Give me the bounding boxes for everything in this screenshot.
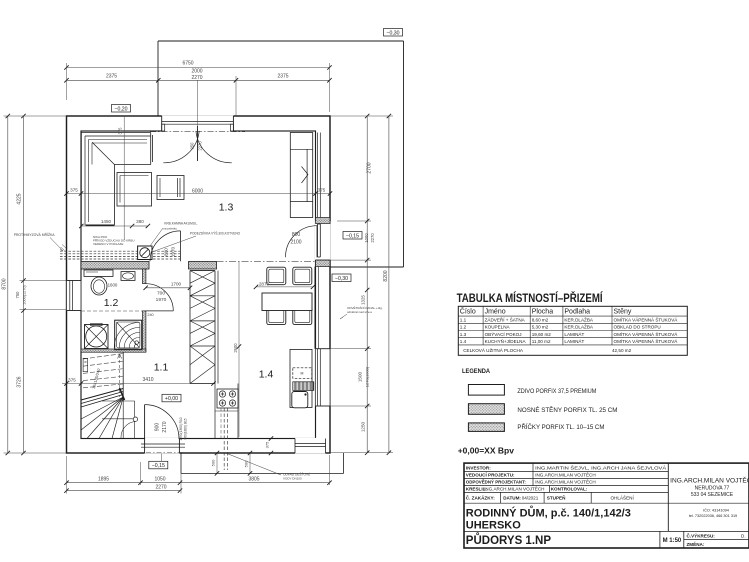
stairs winder [81,353,138,439]
tall cabinet column between hall and kitchen [190,271,238,439]
svg-text:1970: 1970 [156,297,167,303]
svg-text:M: M [301,372,304,376]
dim 380 gap [132,219,150,228]
svg-text:11,00 m2: 11,00 m2 [532,339,551,344]
svg-text:1270(1000): 1270(1000) [365,366,370,387]
svg-text:1700: 1700 [171,282,182,287]
svg-text:VEDENO V PODLAZE: VEDENO V PODLAZE [93,242,123,246]
svg-text:6750: 6750 [182,61,193,67]
svg-text:LAMINÁT: LAMINÁT [564,338,584,344]
open-plan ceiling dash-dot line to kitchen [217,260,316,262]
exterior wall inner outline [81,131,316,439]
armchair B / coffee table [157,176,184,200]
svg-text:UHERSKO: UHERSKO [466,520,521,532]
leader note bottom-left of living [93,235,135,246]
svg-text:380: 380 [136,219,144,224]
wc niche small rect near stairs top [83,358,88,371]
svg-text:375: 375 [318,188,326,193]
svg-text:D.: D. [741,534,746,539]
fireplace stove [138,246,152,260]
leader: protihmyzova mrizka [14,232,66,251]
bottom extension lines [67,454,330,494]
svg-text:2170: 2170 [162,421,168,432]
top dim line 6750 [64,61,331,70]
svg-text:1450: 1450 [101,219,112,224]
title block left texts [466,464,746,547]
svg-text:PŮDORYS 1.NP: PŮDORYS 1.NP [466,533,552,547]
svg-text:−0,20: −0,20 [114,106,127,112]
svg-text:Jméno: Jméno [485,309,506,316]
svg-text:1.1: 1.1 [460,317,467,322]
svg-text:1970: 1970 [171,246,176,257]
svg-text:860(1800) B15: 860(1800) B15 [184,418,188,439]
svg-text:STUPEŇ: STUPEŇ [547,494,566,501]
svg-text:3805: 3805 [248,477,259,483]
svg-text:2700: 2700 [367,162,373,173]
svg-text:240: 240 [147,313,153,317]
dim 2870 dining [254,281,315,289]
kitchen sink [292,392,308,408]
room table header [460,307,632,316]
svg-text:2870: 2870 [259,281,270,286]
level box -0,15 terrace door [343,232,362,240]
svg-text:ZDIVO PORFIX 37,5 PREMIUM: ZDIVO PORFIX 37,5 PREMIUM [517,388,596,395]
right extension lines [330,116,393,453]
load-bearing interior wall right segment / pier (hatched) [189,262,217,270]
shower [114,320,142,350]
svg-text:Č.VÝKRESU:: Č.VÝKRESU: [687,533,716,539]
svg-text:950: 950 [190,142,195,150]
svg-text:LEGENDA: LEGENDA [462,368,490,375]
svg-text:VEDOUCÍ PROJEKTU:: VEDOUCÍ PROJEKTU: [466,470,515,477]
svg-text:750: 750 [15,291,20,299]
svg-text:ING.ARCH.MILAN VOJTĚCH: ING.ARCH.MILAN VOJTĚCH [484,484,545,491]
svg-text:700: 700 [157,291,165,297]
corner sofa living room [81,133,152,226]
svg-text:1.4: 1.4 [259,369,274,381]
svg-text:1290(1360) R10: 1290(1360) R10 [179,417,183,440]
svg-text:1895: 1895 [98,477,109,483]
svg-text:1600: 1600 [108,283,118,288]
svg-text:na peletky: na peletky [163,227,177,231]
svg-text:1.2: 1.2 [104,297,119,309]
svg-text:tel. 732022036, 466 301 319: tel. 732022036, 466 301 319 [689,514,737,518]
svg-text:2375: 2375 [106,74,117,80]
svg-text:DATUM:: DATUM: [503,496,521,501]
svg-text:2270: 2270 [198,141,203,151]
small dims 500 to terrace [211,451,253,476]
opening: kitchen window right wall [315,349,331,406]
svg-text:ING.ARCH.MILAN VOJTĚCH: ING.ARCH.MILAN VOJTĚCH [535,477,596,484]
dish drainer hatched [293,382,314,391]
svg-text:1.4: 1.4 [460,339,467,344]
svg-text:3410: 3410 [142,377,153,383]
svg-text:+0,00=XX Bpv: +0,00=XX Bpv [458,446,515,456]
svg-text:1325: 1325 [361,295,366,305]
svg-text:−0,30: −0,30 [386,30,399,36]
right wall liner lines dining stretch [315,267,319,349]
level box -0,30 top right [384,29,403,37]
svg-text:IČO: 43141094: IČO: 43141094 [703,507,729,512]
svg-text:KER.DLAŽBA: KER.DLAŽBA [564,315,594,322]
svg-text:375: 375 [70,188,78,193]
terrace outline bottom [181,453,344,473]
leader note: krbova kamna [150,222,241,253]
room table rows [460,315,678,344]
leader: odpad destove vody [227,454,310,481]
extension line through sofa [123,116,125,240]
svg-text:Podlaha: Podlaha [564,309,590,316]
svg-text:3726: 3726 [17,376,23,387]
svg-text:ING.MARTIN ŠEJVL, ING.ARCH JAN: ING.MARTIN ŠEJVL, ING.ARCH JANA ŠEJVLOVÁ [535,464,667,470]
left extension lines [4,116,67,453]
svg-text:8700: 8700 [2,278,8,289]
legend swatch 1: zdivo porfix [468,385,596,396]
washbasin [121,272,135,281]
extension line entry axis [161,454,163,462]
svg-text:KONTROLOVAL:: KONTROLOVAL: [551,486,588,491]
dining chairs [267,267,312,324]
wall axis dash-dot through french door [150,131,245,133]
svg-text:Č. ZAKÁZKY:: Č. ZAKÁZKY: [466,495,495,501]
hatched pier above terrace door [316,218,331,224]
svg-text:Číslo: Číslo [460,307,476,316]
svg-text:5,30 m2: 5,30 m2 [532,325,549,330]
svg-text:533 04 SEZEMICE: 533 04 SEZEMICE [691,492,734,498]
right dim 8200 [383,114,391,455]
svg-text:2600: 2600 [233,343,238,353]
leader: odvetrani kanalizace [340,305,383,319]
svg-text:OMÍTKA VÁPENNÁ ŠTUKOVÁ: OMÍTKA VÁPENNÁ ŠTUKOVÁ [614,316,679,322]
kitchen vertical dim line [233,262,241,438]
svg-text:2270: 2270 [155,485,166,491]
svg-text:Stěny: Stěny [614,309,632,316]
level box -0,15 entry [149,461,168,469]
svg-text:−0,15: −0,15 [152,463,165,469]
bathroom/stair partition wall [81,349,146,352]
interior dim 1700 hall top [144,282,193,291]
svg-text:1.3: 1.3 [460,332,467,337]
exterior wall outer outline [67,116,331,453]
hearth dashed lines [60,251,180,259]
level box -0,30 right mid [332,274,351,282]
svg-text:6000: 6000 [192,188,203,194]
svg-text:Plocha: Plocha [532,309,554,316]
svg-text:LAMINÁT: LAMINÁT [564,331,584,337]
svg-text:ZÁDVEŘÍ + ŠATNA: ZÁDVEŘÍ + ŠATNA [485,315,526,322]
window strip right wall living room [318,133,321,218]
interior dim line hall 375/3410 [62,377,216,386]
dim 1450 sofa [79,219,134,228]
svg-text:2270: 2270 [191,75,202,81]
svg-text:500: 500 [211,459,216,466]
bottom dim line 1895/1050/3805 [64,477,331,485]
svg-text:KRB.KAMNA AKUMUL.: KRB.KAMNA AKUMUL. [164,222,198,226]
svg-text:ING.ARCH.MILAN VOJTĚCH: ING.ARCH.MILAN VOJTĚCH [535,470,596,477]
bathroom right partition lower [143,311,146,352]
bathroom door 700/1970 [146,284,173,311]
bathroom divider dashed [81,310,143,312]
svg-text:VODY DN100: VODY DN100 [283,477,302,481]
svg-text:42,50 m2: 42,50 m2 [612,348,632,353]
svg-text:NERUDOVA 77: NERUDOVA 77 [695,486,730,492]
terrace door swing arc [286,226,318,258]
svg-text:ING.ARCH.MILAN VOJTĚCH: ING.ARCH.MILAN VOJTĚCH [670,476,749,485]
svg-text:KER.DLAŽBA: KER.DLAŽBA [564,323,594,330]
room table footer [463,346,631,353]
svg-text:800: 800 [292,232,301,238]
svg-text:CELKOVÁ UŽITNÁ PLOCHA: CELKOVÁ UŽITNÁ PLOCHA [463,346,524,353]
top extension lines [67,63,330,126]
svg-text:+0,00: +0,00 [165,396,178,402]
opening: terrace door right wall (living room) [315,221,331,260]
level box -0,20 top left [112,105,131,113]
svg-text:2000: 2000 [191,69,202,75]
svg-text:1.3: 1.3 [219,202,234,214]
svg-text:OBÝVACÍ POKOJ: OBÝVACÍ POKOJ [485,331,522,337]
cooktop 4 burners [217,389,238,408]
svg-text:1.2: 1.2 [460,325,467,330]
svg-text:1250: 1250 [361,421,366,432]
left dim line 8700 [2,114,11,455]
svg-text:ZMĚNA:: ZMĚNA: [687,540,705,547]
svg-text:PODEZDÍVKA VÝŠ.300,KOTVENO: PODEZDÍVKA VÝŠ.300,KOTVENO [190,231,241,236]
svg-text:900: 900 [155,423,161,432]
right dim chain x=367 [358,114,376,455]
svg-text:2375: 2375 [277,74,288,80]
svg-text:INVESTOR:: INVESTOR: [466,465,491,470]
svg-text:375: 375 [118,127,123,135]
svg-text:19,60 m2: 19,60 m2 [532,332,552,337]
entry door leaf and swing [145,405,179,439]
svg-text:OBKLAD DO STROPU: OBKLAD DO STROPU [614,325,661,330]
rotated tiny dims near entry [179,417,188,440]
legend swatch 2: nosne steny [468,404,617,415]
svg-text:−0,30: −0,30 [335,276,348,282]
opening: kitchen window bottom wall [295,438,326,454]
svg-text:800: 800 [164,248,169,256]
kitchen counter right wall [290,349,312,407]
left dim line 4225/750/3726 [15,114,26,455]
svg-text:PROTIHMYZOVÁ MŘÍŽKA: PROTIHMYZOVÁ MŘÍŽKA [14,232,56,237]
svg-text:1.1: 1.1 [154,362,169,374]
bathroom right partition upper [143,269,146,284]
svg-text:1050: 1050 [154,477,165,483]
svg-text:M 1:50: M 1:50 [663,538,682,544]
room table grid [458,306,687,355]
svg-text:2100: 2100 [290,240,301,246]
interior dim line 375/6000/375 living [64,188,332,196]
svg-text:PŘÍČKY PORFIX TL. 10–15: PŘÍČKY PORFIX TL. 10–15 CM [517,423,604,431]
opening: living room window left wall? none; window bathroom left wall [66,281,82,311]
svg-text:RODINNÝ DŮM, p.č. 140/1,142/3: RODINNÝ DŮM, p.č. 140/1,142/3 [466,506,631,520]
svg-text:8200: 8200 [383,270,389,281]
roof overhang outline top-right [158,41,404,267]
wardrobe right wall living room [290,133,312,218]
svg-text:375: 375 [68,378,76,383]
svg-text:TABULKA MÍSTNOSTÍ–PŘIZEMÍ: TABULKA MÍSTNOSTÍ–PŘIZEMÍ [457,292,604,305]
dim 375 bottom wall thickness [265,436,274,455]
svg-text:1000: 1000 [364,233,369,243]
flue dashed lines below cooktop [221,408,228,470]
svg-text:OMÍTKA VÁPENNÁ ŠTUKOVÁ: OMÍTKA VÁPENNÁ ŠTUKOVÁ [614,331,679,337]
svg-text:8,60 m2: 8,60 m2 [532,317,549,322]
svg-text:1500: 1500 [358,371,363,382]
armchair A [117,173,152,207]
hatched pier below terrace door [316,260,331,267]
svg-text:OHLÁŠENÍ: OHLÁŠENÍ [611,495,635,501]
title block outer [464,463,749,548]
svg-text:odvětrat nad stře-u: odvětrat nad stře-u [347,310,373,314]
title block grid [464,463,749,548]
toilet [84,270,113,295]
title block architect info [670,476,749,519]
interior door hall-living 800/1970 [150,231,181,261]
svg-text:04/2021: 04/2021 [522,496,539,501]
washing machine [85,323,109,348]
svg-text:2270: 2270 [370,233,375,243]
french door leaves and swing arcs [163,126,232,163]
dining table [262,293,312,311]
svg-text:OMÍTKA VÁPENNÁ ŠTUKOVÁ: OMÍTKA VÁPENNÁ ŠTUKOVÁ [614,338,679,344]
svg-text:KUCHYŇ+JÍDELNA: KUCHYŇ+JÍDELNA [485,338,527,344]
top dim line 2375/2000/2375 [64,69,331,83]
svg-text:1000(1270): 1000(1270) [22,285,26,305]
svg-text:4225: 4225 [17,193,23,204]
opening: entry door bottom wall [145,438,180,454]
opening: french door top wall [162,115,234,131]
svg-text:NOSNÉ STĚNY PORFIX TL. 2: NOSNÉ STĚNY PORFIX TL. 25 CM [517,406,617,414]
bottom dim line 2270 [64,485,182,493]
dishwasher dashed [293,368,312,379]
svg-text:ODPOVĚDNÝ PROJEKTANT:: ODPOVĚDNÝ PROJEKTANT: [466,477,526,484]
level box +0,00 [162,394,181,402]
svg-text:−0,15: −0,15 [346,233,359,239]
load-bearing interior wall left segment (hatched) [81,262,149,270]
svg-text:375: 375 [265,441,270,448]
legend swatch 3: pricky porfix [468,423,604,432]
svg-text:KOUPELNA: KOUPELNA [485,325,511,330]
